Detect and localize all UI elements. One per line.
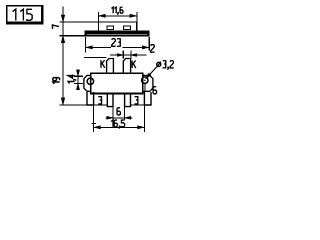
dim text 3 right bbox=[135, 97, 138, 100]
dim 23 arrow right bbox=[142, 46, 148, 49]
dim 11,6 arrow right bbox=[130, 14, 136, 17]
dim text 11,6 bbox=[111, 7, 113, 13]
dim 16,5 arrow left bbox=[94, 126, 100, 129]
dim 6 arrow left bbox=[107, 116, 113, 119]
hole leader arrowhead bbox=[146, 73, 152, 79]
cap slot left bbox=[107, 26, 113, 30]
hole leader line bbox=[147, 67, 157, 78]
dim 23 line left segment bbox=[86, 46, 111, 48]
dim 2 arrow right bbox=[131, 54, 137, 57]
dim 6 line middle segment bbox=[113, 117, 125, 119]
dim 6 extension right stub bbox=[124, 107, 126, 120]
tab2 left extension stub bbox=[122, 51, 124, 59]
tab K left bbox=[107, 59, 114, 74]
hole left bbox=[87, 78, 93, 84]
hole right centerline stub bbox=[144, 84, 146, 92]
dim 16,5 arrow right bbox=[138, 126, 144, 129]
label K right bbox=[131, 61, 133, 69]
figure number 115 bbox=[13, 9, 16, 20]
dim 1,4 lower extension bbox=[74, 82, 83, 84]
dim 23 extension right bbox=[148, 37, 150, 50]
pin tips extension line right (3 dim line) bbox=[131, 104, 152, 106]
dim 11,6 line bbox=[99, 15, 136, 17]
dim text 23 bbox=[112, 39, 116, 47]
side view flange bar bbox=[85, 31, 149, 36]
tab K right bbox=[123, 59, 130, 74]
dim 16,5 extension left bbox=[93, 93, 95, 132]
mounting ear left bbox=[84, 75, 91, 91]
dim 7/19 vertical dimension line bbox=[62, 6, 64, 105]
cap top extension line bbox=[60, 21, 99, 23]
hole right bbox=[142, 77, 148, 83]
dim 6 arrow right bbox=[125, 116, 131, 119]
dim 1,4 bottom arrow bbox=[76, 83, 79, 89]
dim 2 arrow left bbox=[117, 54, 123, 57]
dim 6 extension left stub bbox=[112, 107, 114, 120]
pin tips extension line left (19 dim base / 3 dim line) bbox=[60, 104, 108, 106]
dim 2 line right tail bbox=[110, 54, 147, 56]
dim text 16,5 bbox=[111, 120, 113, 127]
pin 2 bbox=[107, 93, 113, 106]
side view cap body bbox=[98, 22, 136, 31]
mounting ear right bbox=[143, 75, 153, 91]
flange bar inner white slit bbox=[87, 33, 147, 35]
cap slot right bbox=[124, 26, 131, 30]
tick on 16,5 left extension bbox=[91, 123, 96, 125]
dim 7 text rotated bbox=[52, 25, 58, 28]
flange bottom extension line bbox=[60, 35, 86, 37]
label K left bbox=[100, 60, 102, 68]
tab2 right extension stub bbox=[130, 51, 132, 59]
dim text diameter 3,2 bbox=[157, 62, 161, 68]
dim 11,6 extension left bbox=[97, 12, 99, 22]
dim 19 text rotated bbox=[53, 78, 60, 84]
dim 19 top arrow bbox=[61, 36, 65, 43]
dim 1,4 upper extension bbox=[74, 75, 83, 77]
dim 16,5 extension right bbox=[143, 93, 145, 132]
dim 23 arrow left bbox=[86, 46, 92, 49]
dim 16,5 line bbox=[94, 126, 145, 128]
dim 23 line right segment bbox=[122, 46, 149, 48]
dim text 6 right bbox=[153, 87, 156, 94]
figure label box bbox=[6, 5, 42, 23]
dim 19 bottom arrow bbox=[61, 98, 65, 105]
hole right center dot bbox=[144, 79, 146, 81]
dim 7 top arrow bbox=[61, 15, 65, 22]
dim 1,4 text rotated bbox=[68, 75, 76, 84]
top view body bbox=[91, 73, 143, 93]
dim text 6 bottom bbox=[117, 108, 120, 115]
dim text 3 left bbox=[98, 97, 101, 100]
dim 1,4 top arrow bbox=[76, 70, 79, 76]
pin 3 bbox=[125, 93, 131, 106]
pin 4 bbox=[144, 92, 151, 105]
hole left center dot bbox=[90, 81, 92, 83]
dim 11,6 arrow left bbox=[99, 14, 105, 17]
dim text 2 bbox=[151, 45, 155, 53]
dim 23 extension left bbox=[85, 37, 87, 52]
dim 1,4 vertical line bbox=[77, 71, 79, 90]
dim 6 line left tail bbox=[106, 117, 114, 119]
tab top level extension line bbox=[84, 57, 107, 59]
dim 11,6 extension right bbox=[136, 12, 138, 22]
pin 1 bbox=[87, 92, 94, 105]
dim 6 line right tail bbox=[125, 117, 133, 119]
